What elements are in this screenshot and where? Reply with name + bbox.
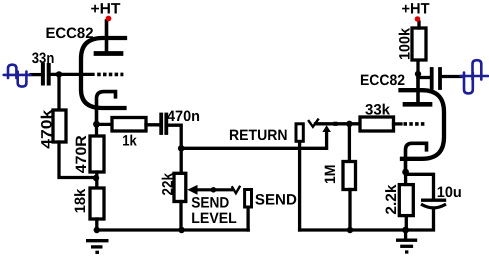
svg-text:1M: 1M <box>322 165 339 185</box>
svg-text:RETURN: RETURN <box>229 127 288 144</box>
svg-text:1k: 1k <box>122 132 137 149</box>
svg-text:ECC82: ECC82 <box>360 72 405 89</box>
svg-text:10u: 10u <box>437 184 462 201</box>
svg-text:+HT: +HT <box>402 1 430 18</box>
svg-text:LEVEL: LEVEL <box>191 210 237 227</box>
svg-text:SEND: SEND <box>255 191 297 208</box>
svg-text:33k: 33k <box>365 102 391 119</box>
svg-text:2.2k: 2.2k <box>383 184 400 215</box>
svg-text:33n: 33n <box>32 50 55 67</box>
svg-text:100k: 100k <box>396 27 413 60</box>
svg-text:+HT: +HT <box>91 1 121 18</box>
svg-text:470n: 470n <box>167 108 200 125</box>
svg-text:22k: 22k <box>159 172 176 195</box>
svg-text:470k: 470k <box>38 109 55 149</box>
svg-text:18k: 18k <box>72 188 89 213</box>
svg-text:ECC82: ECC82 <box>46 25 94 42</box>
svg-text:470R: 470R <box>73 135 90 173</box>
